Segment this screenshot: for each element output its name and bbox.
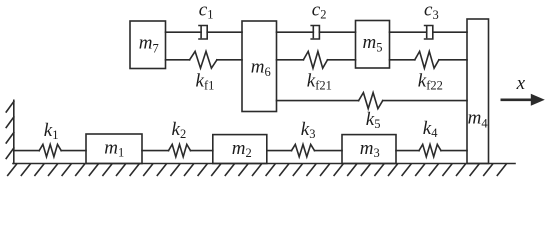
- wire damper c3 to m4: [433, 31, 467, 33]
- damper c3: [425, 26, 433, 40]
- mass m5: [356, 21, 390, 69]
- svg-text:kf1: kf1: [196, 71, 215, 93]
- svg-text:m7: m7: [139, 33, 159, 56]
- svg-text:m2: m2: [232, 138, 252, 160]
- svg-text:x: x: [516, 73, 526, 94]
- svg-text:m5: m5: [363, 32, 383, 55]
- wire spring k5 to m4: [383, 100, 467, 102]
- ground line: [13, 163, 515, 165]
- wire m2 to spring k3: [267, 150, 292, 152]
- wire wall to spring k1: [14, 150, 39, 152]
- ground hatching: [8, 164, 506, 175]
- svg-text:m1: m1: [104, 138, 124, 160]
- spring kf22: [415, 51, 439, 68]
- wire m5 to damper c3: [390, 31, 427, 33]
- mass m2: [213, 135, 267, 164]
- damper c2: [311, 26, 319, 40]
- wire spring kf1 to m6: [217, 59, 242, 61]
- svg-text:m6: m6: [251, 56, 271, 79]
- wire spring kf22 to m4: [439, 59, 467, 61]
- spring kf21: [303, 51, 327, 68]
- svg-text:m3: m3: [360, 138, 380, 160]
- wire spring k3 to m3: [315, 150, 343, 152]
- wall hatching: [6, 102, 14, 159]
- svg-text:c3: c3: [424, 0, 439, 22]
- svg-text:k1: k1: [44, 120, 59, 142]
- svg-text:k2: k2: [172, 119, 187, 141]
- wire m7 to damper c1: [166, 31, 202, 33]
- mass m1: [86, 134, 142, 164]
- svg-text:c1: c1: [199, 0, 214, 22]
- mass m3: [342, 135, 396, 164]
- wire m6 to damper c2: [277, 31, 314, 33]
- wire m6 to spring k5: [277, 100, 359, 102]
- spring k5: [359, 93, 383, 109]
- wire spring kf21 to m5: [328, 59, 356, 61]
- mass m7: [130, 21, 166, 69]
- wire spring k1 to m1: [61, 150, 86, 152]
- spring k3: [292, 144, 315, 156]
- spring k1: [39, 144, 61, 156]
- svg-text:m4: m4: [468, 108, 489, 131]
- wire spring k4 to m4: [441, 150, 467, 152]
- svg-text:k3: k3: [301, 119, 316, 141]
- wire damper c2 to m5: [319, 31, 355, 33]
- wire m1 to spring k2: [142, 150, 169, 152]
- wire m7 to spring kf1: [166, 59, 190, 61]
- svg-text:k4: k4: [423, 118, 438, 140]
- svg-text:c2: c2: [312, 0, 327, 22]
- damper c1: [199, 26, 207, 40]
- wire m3 to spring k4: [396, 150, 419, 152]
- mass m6: [242, 21, 277, 112]
- wall (left fixed support): [13, 100, 15, 163]
- mass m4: [467, 19, 489, 164]
- spring kf1: [190, 51, 217, 68]
- svg-text:kf22: kf22: [418, 71, 443, 93]
- spring k2: [169, 144, 191, 156]
- svg-text:kf21: kf21: [307, 71, 332, 93]
- displacement arrow x: [502, 94, 545, 106]
- wire spring k2 to m2: [191, 150, 213, 152]
- wire damper c1 to m6: [207, 31, 242, 33]
- spring k4: [419, 144, 441, 156]
- wire m5 to spring kf22: [390, 59, 415, 61]
- wire m6 to spring kf21: [277, 59, 304, 61]
- svg-text:k5: k5: [366, 109, 381, 131]
